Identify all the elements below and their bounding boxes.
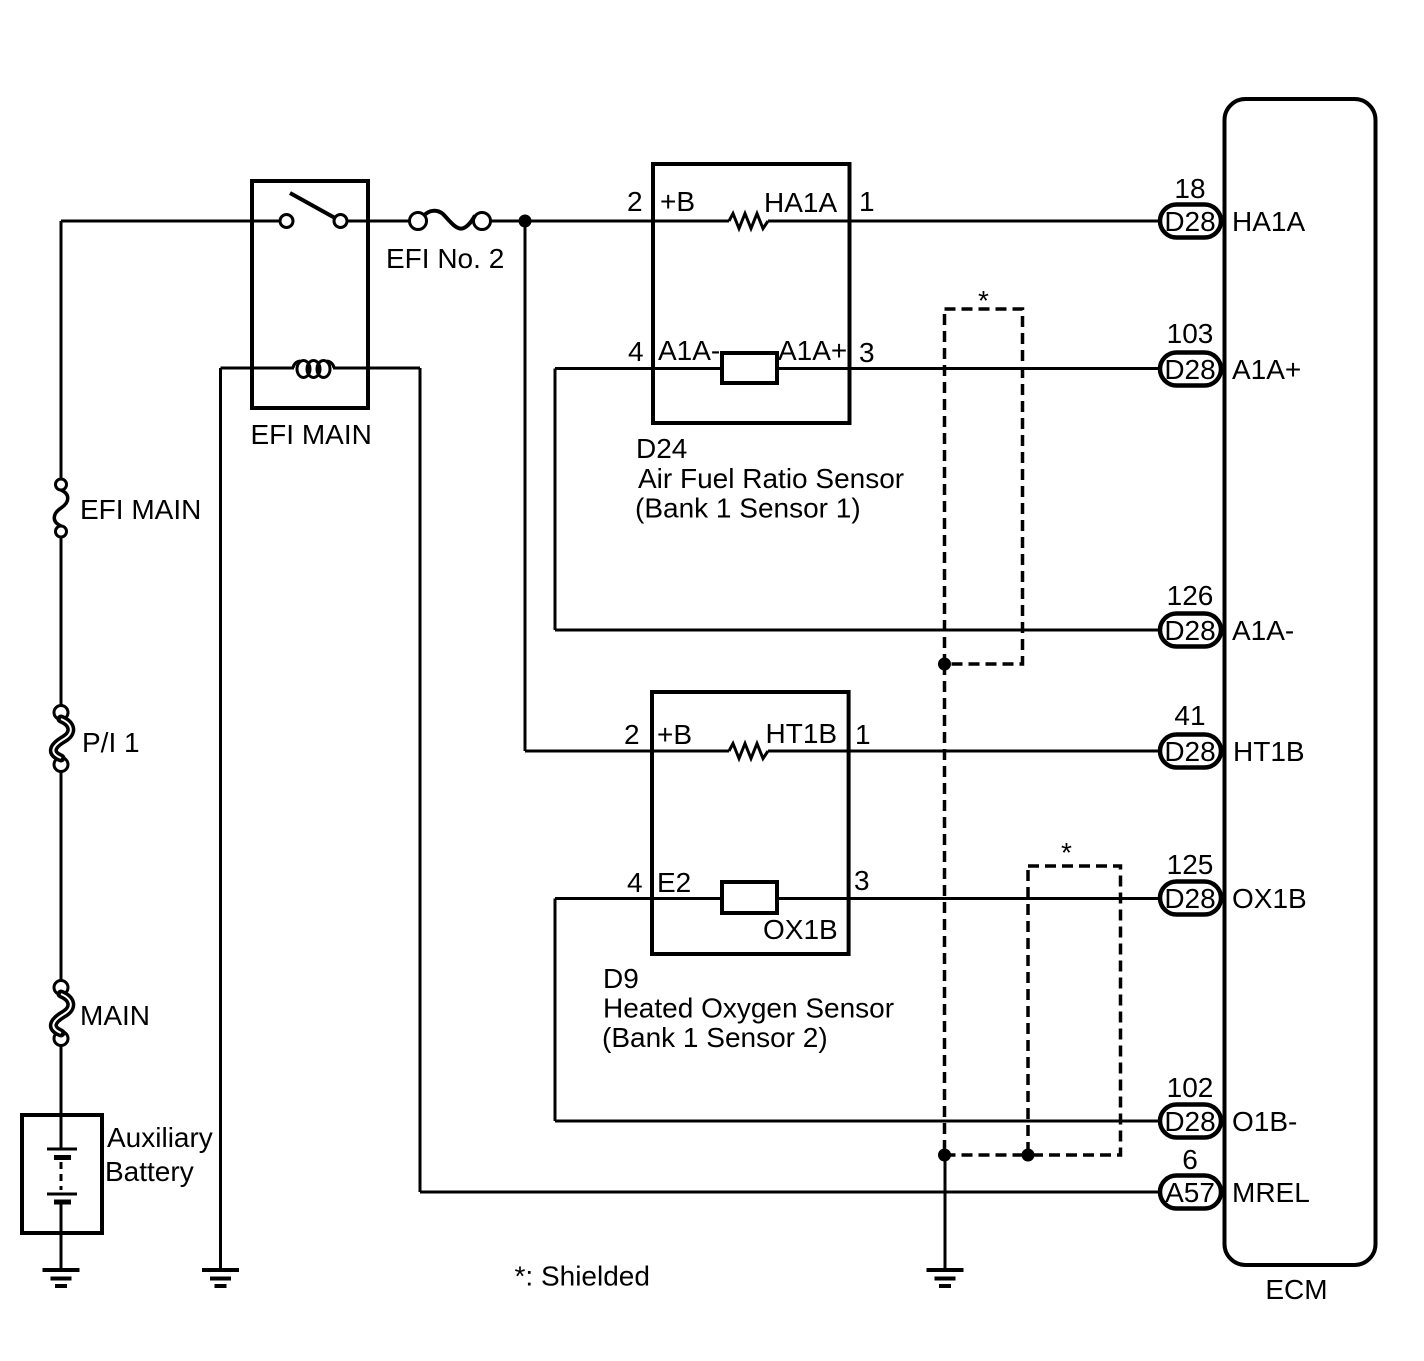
svg-text:EFI MAIN: EFI MAIN (251, 419, 372, 450)
svg-text:Air Fuel Ratio Sensor: Air Fuel Ratio Sensor (638, 463, 904, 494)
svg-text:3: 3 (854, 865, 870, 896)
svg-text:D28: D28 (1164, 883, 1215, 914)
svg-text:*: * (978, 285, 989, 316)
svg-text:ECM: ECM (1265, 1274, 1327, 1305)
svg-text:EFI No. 2: EFI No. 2 (386, 243, 504, 274)
svg-text:41: 41 (1174, 700, 1205, 731)
svg-text:103: 103 (1167, 318, 1214, 349)
svg-text:Auxiliary: Auxiliary (107, 1122, 213, 1153)
svg-text:18: 18 (1174, 173, 1205, 204)
svg-text:+B: +B (660, 186, 695, 217)
svg-text:HT1B: HT1B (1233, 736, 1305, 767)
svg-text:D28: D28 (1164, 1106, 1215, 1137)
svg-text:D24: D24 (636, 433, 687, 464)
svg-text:4: 4 (627, 867, 643, 898)
svg-text:6: 6 (1182, 1144, 1198, 1175)
svg-text:O1B-: O1B- (1232, 1106, 1297, 1137)
svg-text:1: 1 (855, 719, 871, 750)
svg-text:D28: D28 (1164, 354, 1215, 385)
svg-text:2: 2 (624, 719, 640, 750)
svg-text:A1A-: A1A- (658, 335, 720, 366)
svg-text:Battery: Battery (105, 1156, 194, 1187)
svg-text:HT1B: HT1B (766, 718, 838, 749)
svg-text:1: 1 (859, 186, 875, 217)
svg-text:125: 125 (1167, 849, 1214, 880)
svg-text:+B: +B (657, 719, 692, 750)
svg-text:OX1B: OX1B (1232, 883, 1307, 914)
svg-text:*: Shielded: *: Shielded (515, 1261, 650, 1292)
svg-text:A1A+: A1A+ (778, 335, 847, 366)
svg-text:D28: D28 (1164, 206, 1215, 237)
svg-text:HA1A: HA1A (764, 187, 837, 218)
svg-text:(Bank 1 Sensor 1): (Bank 1 Sensor 1) (635, 493, 861, 524)
svg-text:D28: D28 (1164, 736, 1215, 767)
svg-text:*: * (1061, 837, 1072, 868)
svg-text:E2: E2 (657, 867, 691, 898)
svg-text:P/I 1: P/I 1 (82, 727, 140, 758)
svg-text:Heated Oxygen Sensor: Heated Oxygen Sensor (603, 993, 894, 1024)
svg-text:(Bank 1 Sensor 2): (Bank 1 Sensor 2) (602, 1022, 828, 1053)
svg-text:2: 2 (627, 186, 643, 217)
svg-text:MREL: MREL (1232, 1177, 1310, 1208)
svg-text:MAIN: MAIN (80, 1000, 150, 1031)
svg-text:4: 4 (628, 336, 644, 367)
svg-text:EFI MAIN: EFI MAIN (80, 494, 201, 525)
svg-text:3: 3 (859, 337, 875, 368)
svg-text:102: 102 (1167, 1072, 1214, 1103)
svg-text:A1A+: A1A+ (1232, 354, 1301, 385)
svg-text:D9: D9 (603, 963, 639, 994)
svg-text:A1A-: A1A- (1232, 615, 1294, 646)
svg-text:OX1B: OX1B (763, 914, 838, 945)
svg-text:HA1A: HA1A (1232, 206, 1305, 237)
svg-text:D28: D28 (1164, 615, 1215, 646)
svg-text:A57: A57 (1165, 1177, 1215, 1208)
svg-text:126: 126 (1167, 580, 1214, 611)
